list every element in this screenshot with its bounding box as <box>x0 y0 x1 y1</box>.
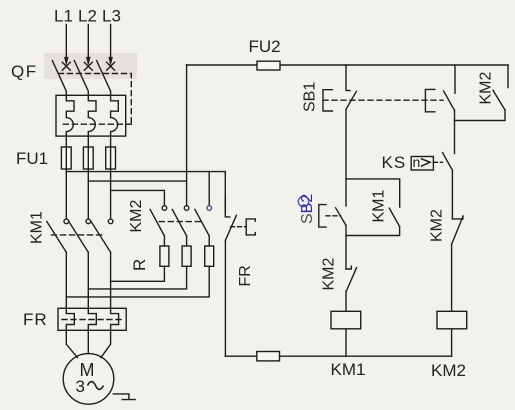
svg-text:FU2: FU2 <box>249 37 281 56</box>
svg-text:KM2: KM2 <box>478 72 495 105</box>
wire FU2 riser / KM2 pole 2 feed <box>186 65 188 206</box>
node L3 incoming line with arrow <box>107 25 115 71</box>
svg-text:KM2: KM2 <box>429 209 446 242</box>
svg-text:n: n <box>413 154 421 170</box>
svg-text:FR: FR <box>237 265 254 286</box>
push button SB1 NC contact (left) <box>346 65 356 206</box>
QF pole 1 thermal + magnetic release <box>66 95 74 136</box>
fuse FU1 pole 2 <box>83 147 93 169</box>
contactor KM2 main contact 2 <box>172 206 189 236</box>
wire tap phase 2 (line B) <box>88 180 186 182</box>
wire KM2 coil to bottom rail <box>451 329 453 356</box>
FR hook dashed link <box>231 226 247 228</box>
wire phase 3 KM1 to FR <box>110 252 112 308</box>
node L2 incoming line with arrow <box>84 25 92 71</box>
resistor R3 <box>205 236 214 266</box>
svg-text:FR: FR <box>23 310 48 329</box>
contactor KM2 auxiliary NO contact (top right) <box>455 65 509 121</box>
SB1 button bracket (left) <box>323 90 332 111</box>
KM1 linkage (dashed) <box>52 234 102 236</box>
wire FR to motor U <box>66 330 77 357</box>
node L1 incoming line with arrow <box>62 25 70 71</box>
fuse FU2 <box>257 61 280 70</box>
svg-text:KM2: KM2 <box>321 258 338 291</box>
fuse FU1 pole 3 <box>106 147 116 169</box>
coil KM1 <box>331 311 361 329</box>
thermal relay FR NC contact (control) <box>225 172 236 357</box>
QF enclosure box <box>56 95 126 136</box>
speed relay KS NO contact <box>443 121 455 219</box>
SB1 button bracket (right) <box>425 89 434 111</box>
svg-text:KM1: KM1 <box>371 190 388 223</box>
coil KM2 <box>437 311 467 329</box>
wire KM1 coil to bottom rail <box>345 329 347 356</box>
wire tap phase 1 to control (line A) <box>66 171 225 173</box>
control bottom rail <box>225 355 451 357</box>
svg-text:L3: L3 <box>102 7 121 26</box>
contactor KM2 main contact 1 <box>150 206 167 236</box>
SB2 button bracket <box>319 205 326 228</box>
push button SB1 NO contact (right) <box>444 65 455 121</box>
KM2 linkage (dashed) <box>159 221 200 223</box>
FR trip hook symbol <box>246 219 255 235</box>
ground wire <box>113 394 135 400</box>
wire phase 2 KM1 to FR <box>87 252 89 308</box>
wire KM2 pole 3 feed <box>208 172 210 206</box>
svg-text:FU1: FU1 <box>16 149 48 168</box>
svg-text:L2: L2 <box>78 7 97 26</box>
FR heater element 2 <box>88 308 96 330</box>
watermark tint on FR rail <box>224 198 226 213</box>
SB1 actuator dashed link <box>323 99 443 101</box>
svg-text:3: 3 <box>76 377 85 396</box>
push button SB2 NO contact <box>336 208 346 269</box>
svg-text:KM1: KM1 <box>331 360 366 379</box>
wire phase 3 from QF to KM1 <box>110 136 112 218</box>
wire R2 to phase 2 motor side <box>88 266 186 289</box>
KS dashed link <box>433 161 442 163</box>
SB2 actuator dashed link <box>326 215 341 217</box>
fuse FU2b (bottom rail) <box>257 352 280 361</box>
wire R1 to phase 3 motor side <box>111 266 165 281</box>
circuit breaker QF pole 1 blade <box>52 61 66 96</box>
svg-text:R: R <box>130 259 149 271</box>
contactor KM2 main contact 3 <box>195 206 212 236</box>
thermal relay FR box <box>58 308 126 330</box>
wire phase 1 from QF to KM1 <box>65 136 67 218</box>
contactor KM2 NC interlock contact (right branch) <box>452 216 463 311</box>
resistor R2 <box>182 236 191 266</box>
contactor KM1 main contact 2 <box>69 219 91 252</box>
contactor KM1 auxiliary NO contact (self-holding branch) <box>346 179 400 236</box>
svg-text:SB1: SB1 <box>302 82 319 112</box>
control top rail <box>187 64 508 66</box>
FR heater element 3 <box>111 308 119 330</box>
KS n> box <box>411 157 433 171</box>
wire FR to motor V <box>87 330 89 353</box>
wire R3 to phase 1 motor side <box>66 266 209 297</box>
contactor KM1 main contact 3 <box>91 219 113 252</box>
resistor R1 <box>160 236 169 266</box>
svg-text:L1: L1 <box>54 7 73 26</box>
contactor KM1 main contact 1 <box>47 219 69 252</box>
wire FR to motor W <box>101 330 111 357</box>
svg-text:KM1: KM1 <box>29 211 46 244</box>
wire phase 2 from QF to KM1 <box>87 136 89 218</box>
circuit breaker QF pole 3 blade <box>97 61 111 96</box>
fuse FU1 pole 1 <box>61 147 71 169</box>
FR linkage (dashed) <box>62 319 124 321</box>
QF pole 3 thermal + magnetic release <box>111 95 119 136</box>
QF pole 2 thermal + magnetic release <box>88 95 96 136</box>
contactor KM2 NC interlock contact (left branch) <box>346 266 357 311</box>
wire tap phase 3 (line C) <box>111 190 165 205</box>
QF mechanical linkage (dashed) <box>59 74 132 125</box>
wire phase 1 KM1 to FR <box>65 252 67 308</box>
FR heater element 1 <box>66 308 74 330</box>
label SB2 (with blue watermark) <box>298 194 316 224</box>
svg-text:QF: QF <box>11 62 38 81</box>
motor M circle <box>63 354 114 405</box>
svg-text:KM2: KM2 <box>128 200 145 233</box>
svg-text:KS: KS <box>382 153 407 172</box>
svg-text:KM2: KM2 <box>431 361 466 380</box>
circuit breaker QF pole 2 blade <box>74 61 88 96</box>
